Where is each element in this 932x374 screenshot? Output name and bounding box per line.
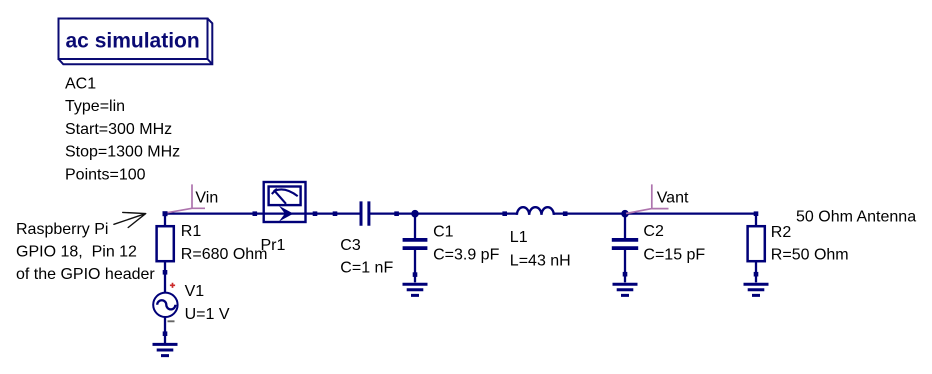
wire R2 to ground [755,261,757,282]
svg-text:R2: R2 [771,224,792,241]
svg-text:L1: L1 [510,229,528,246]
svg-text:Stop=1300 MHz: Stop=1300 MHz [65,144,180,161]
svg-text:Points=100: Points=100 [65,166,146,183]
inductor L1 [517,207,554,215]
svg-text:ac simulation: ac simulation [66,29,200,52]
wire C1 branch upper [414,214,416,239]
svg-text:Vant: Vant [657,190,689,207]
svg-text:C3: C3 [340,237,361,254]
svg-text:U=1 V: U=1 V [185,306,230,323]
resistor R2 [748,226,765,261]
capacitor C2 (shunt) [612,240,638,248]
svg-text:C=1 nF: C=1 nF [340,260,393,277]
node Vant label [626,184,669,213]
node Vin label [165,184,206,213]
wire main horizontal left of C3 [165,212,360,214]
ground below V1 [153,344,178,355]
svg-text:Pr1: Pr1 [261,237,286,254]
node junction at C1 [411,210,419,218]
wire R2 branch upper [755,214,757,226]
svg-text:R=680 Ohm: R=680 Ohm [181,246,268,263]
AC1 parameter text [65,75,180,183]
wire main horizontal right of C3 [369,212,518,214]
svg-text:Vin: Vin [195,189,218,206]
svg-text:GPIO 18, Pin 12: GPIO 18, Pin 12 [16,244,137,261]
annotation arrow [114,212,146,227]
svg-text:AC1: AC1 [65,75,96,92]
wire C2 to ground [624,250,626,283]
wire C1 to ground [414,250,416,283]
svg-text:Raspberry Pi: Raspberry Pi [16,221,108,238]
annotation text Raspberry Pi [16,221,155,283]
resistor R1 [157,226,174,261]
svg-text:50 Ohm Antenna: 50 Ohm Antenna [796,209,916,226]
wire V1 to ground [164,317,166,344]
capacitor C1 (shunt) [403,240,428,248]
svg-text:C=15 pF: C=15 pF [643,247,705,264]
svg-text:Type=lin: Type=lin [65,98,125,115]
svg-text:C=3.9 pF: C=3.9 pF [433,246,499,263]
wire R1 to V1 [164,261,166,293]
capacitor C3 (series) [361,201,369,225]
terminal squares on wires [163,211,759,336]
ground below C1 [403,284,428,295]
svg-text:C2: C2 [643,223,664,240]
wire main horizontal right of L1 [554,212,757,214]
current probe Pr1 [264,182,306,222]
ground below C2 [613,284,638,295]
svg-text:R1: R1 [181,223,202,240]
svg-text:L=43 nH: L=43 nH [510,252,571,269]
ground below R2 [744,284,769,295]
svg-text:C1: C1 [433,223,454,240]
node junction at C2 / Vant [621,210,629,218]
wire R1 branch [164,214,166,226]
wire C2 branch upper [624,214,626,239]
V1 minus mark [168,320,175,322]
svg-text:Start=300 MHz: Start=300 MHz [65,121,172,138]
svg-text:of the GPIO header: of the GPIO header [16,266,155,283]
Pr1 arrow [279,206,294,222]
svg-text:V1: V1 [185,283,205,300]
svg-text:R=50 Ohm: R=50 Ohm [771,247,849,264]
ac simulation box [59,19,213,65]
ac source V1 [153,293,177,317]
V1 plus mark [170,283,175,288]
